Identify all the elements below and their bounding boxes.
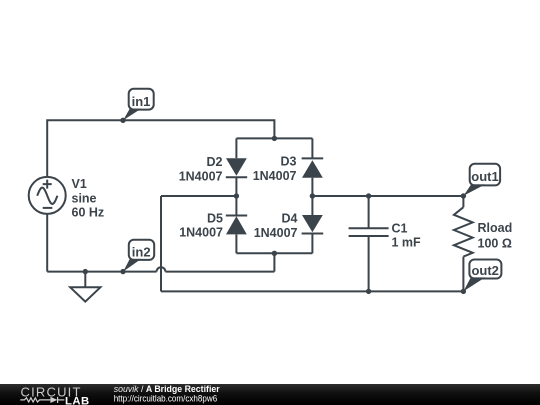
svg-text:http://circuitlab.com/cxh8pw6: http://circuitlab.com/cxh8pw6	[114, 394, 218, 405]
svg-text:1 mF: 1 mF	[392, 236, 422, 250]
svg-text:D2: D2	[207, 155, 223, 169]
svg-text:60 Hz: 60 Hz	[72, 206, 105, 220]
svg-text:LAB: LAB	[65, 395, 90, 405]
svg-text:1N4007: 1N4007	[179, 226, 223, 240]
svg-text:out1: out1	[471, 169, 498, 184]
svg-text:in2: in2	[132, 244, 151, 259]
svg-text:Rload: Rload	[478, 221, 513, 235]
svg-text:out2: out2	[471, 263, 498, 278]
svg-text:D3: D3	[281, 155, 297, 169]
svg-text:sine: sine	[72, 192, 97, 206]
svg-text:100 Ω: 100 Ω	[478, 237, 512, 251]
svg-text:1N4007: 1N4007	[179, 169, 223, 183]
svg-text:1N4007: 1N4007	[253, 169, 297, 183]
svg-text:in1: in1	[132, 94, 151, 109]
svg-text:C1: C1	[392, 222, 408, 236]
svg-text:D5: D5	[207, 211, 223, 225]
svg-text:V1: V1	[72, 177, 87, 191]
svg-text:D4: D4	[282, 211, 298, 225]
svg-text:1N4007: 1N4007	[254, 226, 298, 240]
